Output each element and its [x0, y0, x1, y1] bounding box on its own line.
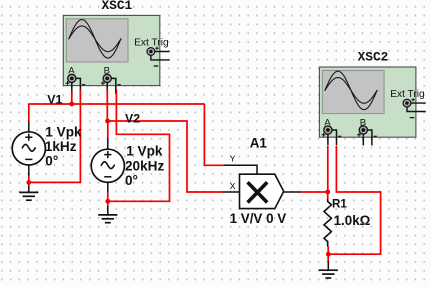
svg-text:XSC2: XSC2 — [358, 49, 389, 64]
svg-text:Ext Trig: Ext Trig — [390, 89, 425, 100]
junction node V1 / A+ — [69, 102, 74, 107]
wire V1 top to node V1 — [28, 104, 30, 121]
wire XSC1 A- down to V1 bottom node — [29, 90, 81, 183]
wire node V1 horizontal to Y branch — [29, 103, 205, 105]
svg-text:A1: A1 — [250, 135, 268, 150]
wire XSC1 B+ to node V2 — [106, 90, 108, 122]
junction node OUT — [325, 190, 330, 195]
junction V1 bottom node — [26, 180, 31, 185]
ground below V2 — [98, 206, 117, 223]
AC source V1 — [12, 121, 45, 175]
XSC2 channel B port — [357, 126, 377, 145]
resistor R1 — [324, 199, 331, 247]
XSC2 Ext Trig pin — [403, 98, 426, 118]
multiplier A1 body — [223, 165, 301, 208]
svg-text:V2: V2 — [125, 111, 140, 125]
XSC1 Ext Trig pin — [147, 47, 170, 67]
svg-text:1 V/V 0 V: 1 V/V 0 V — [230, 211, 287, 226]
ground below R1 — [319, 261, 338, 278]
wire V1 bottom to ground — [28, 175, 30, 187]
oscilloscope XSC1 body — [63, 15, 160, 85]
svg-text:Ext Trig: Ext Trig — [134, 38, 169, 49]
svg-text:Y: Y — [230, 154, 236, 165]
wire XSC1 B- loop to V2 bottom node — [108, 90, 170, 202]
XSC1 channel A port — [66, 74, 86, 94]
oscilloscope XSC2 body — [319, 67, 416, 137]
wire node V2 to X input — [108, 121, 223, 192]
svg-text:X: X — [230, 181, 236, 192]
wire Y branch down — [204, 104, 223, 165]
wire XSC1 A+ to node V1 — [71, 92, 73, 105]
wire R1 bottom to node — [327, 247, 329, 262]
wire XSC2 A+ to node OUT — [327, 146, 329, 192]
XSC1 channel B port — [101, 74, 121, 94]
svg-text:V1: V1 — [47, 92, 62, 106]
AC source V2 — [91, 139, 124, 193]
XSC2 screen waveform — [325, 71, 377, 110]
junction node V2 / B+ — [105, 119, 110, 124]
junction R1 bottom node — [326, 252, 331, 257]
wire node V2 to V2 top pin — [107, 121, 109, 139]
wire V2 bottom to ground — [107, 193, 109, 207]
wire node OUT to R1 top — [327, 192, 329, 199]
XSC2 channel A port — [322, 126, 342, 145]
svg-text:R1: R1 — [332, 198, 347, 211]
ground below V1 — [19, 186, 38, 200]
XSC1 screen waveform — [69, 20, 121, 59]
svg-text:1.0kΩ: 1.0kΩ — [334, 213, 371, 228]
junction V2 bottom node — [105, 199, 110, 204]
wire XSC2 A- loop to R1 bottom node — [328, 146, 380, 254]
svg-text:XSC1: XSC1 — [102, 0, 133, 13]
wire A1 output to node OUT — [301, 191, 328, 193]
